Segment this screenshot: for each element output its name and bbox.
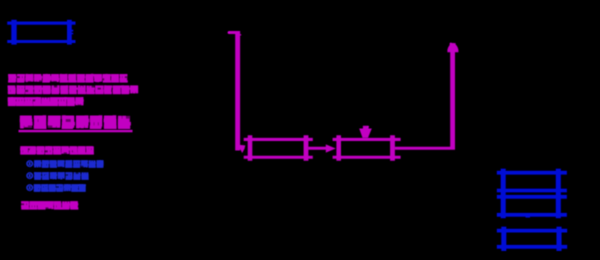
wire W1 (top hook + left drop line): [228, 31, 240, 151]
box S1 (magenta step 1): [244, 135, 313, 161]
arrow A3 (down onto S2): [359, 126, 372, 138]
box B4 (blue, bottom single): [497, 227, 567, 251]
text T4 item 1 (blue): [26, 160, 103, 168]
box B1 (blue, top-left): [7, 20, 75, 45]
text T5 footer (magenta): [21, 201, 78, 210]
arrow A4 (up arrowhead): [447, 43, 458, 53]
box B2 notch: [526, 216, 531, 217]
arrow A1 (into step S1): [238, 145, 245, 153]
text T1 line3: [8, 97, 84, 106]
box B2 (blue, stacked pair): [497, 169, 567, 219]
text T3 list header (magenta): [20, 146, 94, 155]
box S2 (magenta step 2): [333, 135, 401, 161]
wire W3 (right riser): [450, 46, 455, 150]
underline U1: [19, 130, 133, 132]
wire W2 (S2 to riser): [395, 147, 455, 150]
arrow A2 (S1 to S2): [308, 144, 335, 152]
text T4 item 2 (blue): [26, 172, 89, 180]
text T4 item 3 (blue): [26, 184, 86, 192]
text T2 headline: [20, 115, 131, 129]
text T1 line2: [8, 85, 139, 94]
box B1 nub: [71, 30, 73, 35]
wire W1 nub: [240, 34, 241, 35]
text T1 line1 (magenta paragraph): [8, 74, 128, 83]
